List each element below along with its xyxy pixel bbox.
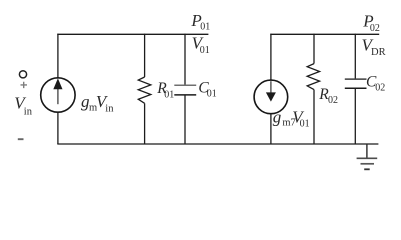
svg-text:DR: DR: [371, 47, 386, 58]
wire: capacitor C01 top lead: [184, 34, 186, 85]
label C02: [366, 74, 385, 94]
resistor R02: [307, 64, 319, 90]
svg-text:01: 01: [207, 88, 217, 99]
node P01 label: [190, 11, 210, 33]
wire: resistor R01 bottom lead: [144, 103, 146, 144]
label Vin: [14, 94, 32, 118]
minus sign: [18, 138, 24, 140]
svg-text:in: in: [105, 104, 114, 115]
wire: current source G1 bottom lead: [57, 112, 59, 144]
capacitor C01: [174, 85, 196, 95]
current source G2 (gm7V01): [254, 80, 288, 114]
label C01: [198, 80, 216, 100]
wire: ground stub: [366, 144, 368, 158]
wire: current source G2 top lead: [270, 34, 272, 80]
svg-text:in: in: [24, 107, 33, 118]
wire: resistor R02 bottom lead: [313, 90, 315, 144]
plus sign: [21, 82, 28, 88]
ground: [357, 158, 378, 169]
wire: current source G1 top lead: [57, 34, 59, 78]
label gm7V01: [273, 107, 310, 129]
input port terminal: [19, 71, 26, 78]
resistor R01: [138, 77, 151, 103]
label gmVin: [81, 92, 114, 115]
svg-text:01: 01: [300, 118, 310, 129]
node P02 label: [362, 12, 380, 34]
svg-text:01: 01: [200, 45, 210, 56]
node VDR label: [362, 36, 386, 58]
capacitor C02: [345, 79, 367, 88]
wire: right stage top rail (node P02 net): [270, 33, 379, 35]
wire: resistor R01 top lead: [144, 34, 146, 77]
svg-text:01: 01: [164, 89, 174, 100]
wire: bottom rail (ground net): [57, 143, 378, 145]
label R01: [156, 80, 174, 100]
svg-text:01: 01: [200, 22, 210, 33]
wire: current source G2 bottom lead: [270, 114, 272, 144]
svg-text:02: 02: [375, 83, 385, 94]
node V01 label: [192, 33, 210, 56]
wire: capacitor C02 top lead: [354, 34, 356, 79]
label R02: [318, 86, 338, 106]
wire: capacitor C01 bottom lead: [184, 95, 186, 144]
current source G1 (gmVin): [41, 78, 75, 112]
svg-text:02: 02: [370, 23, 380, 34]
wire: resistor R02 top lead: [313, 34, 315, 64]
wire: left stage top rail (node P01 net): [57, 33, 208, 35]
svg-text:02: 02: [328, 95, 338, 106]
svg-text:g: g: [273, 107, 282, 126]
wire: capacitor C02 bottom lead: [354, 88, 356, 144]
